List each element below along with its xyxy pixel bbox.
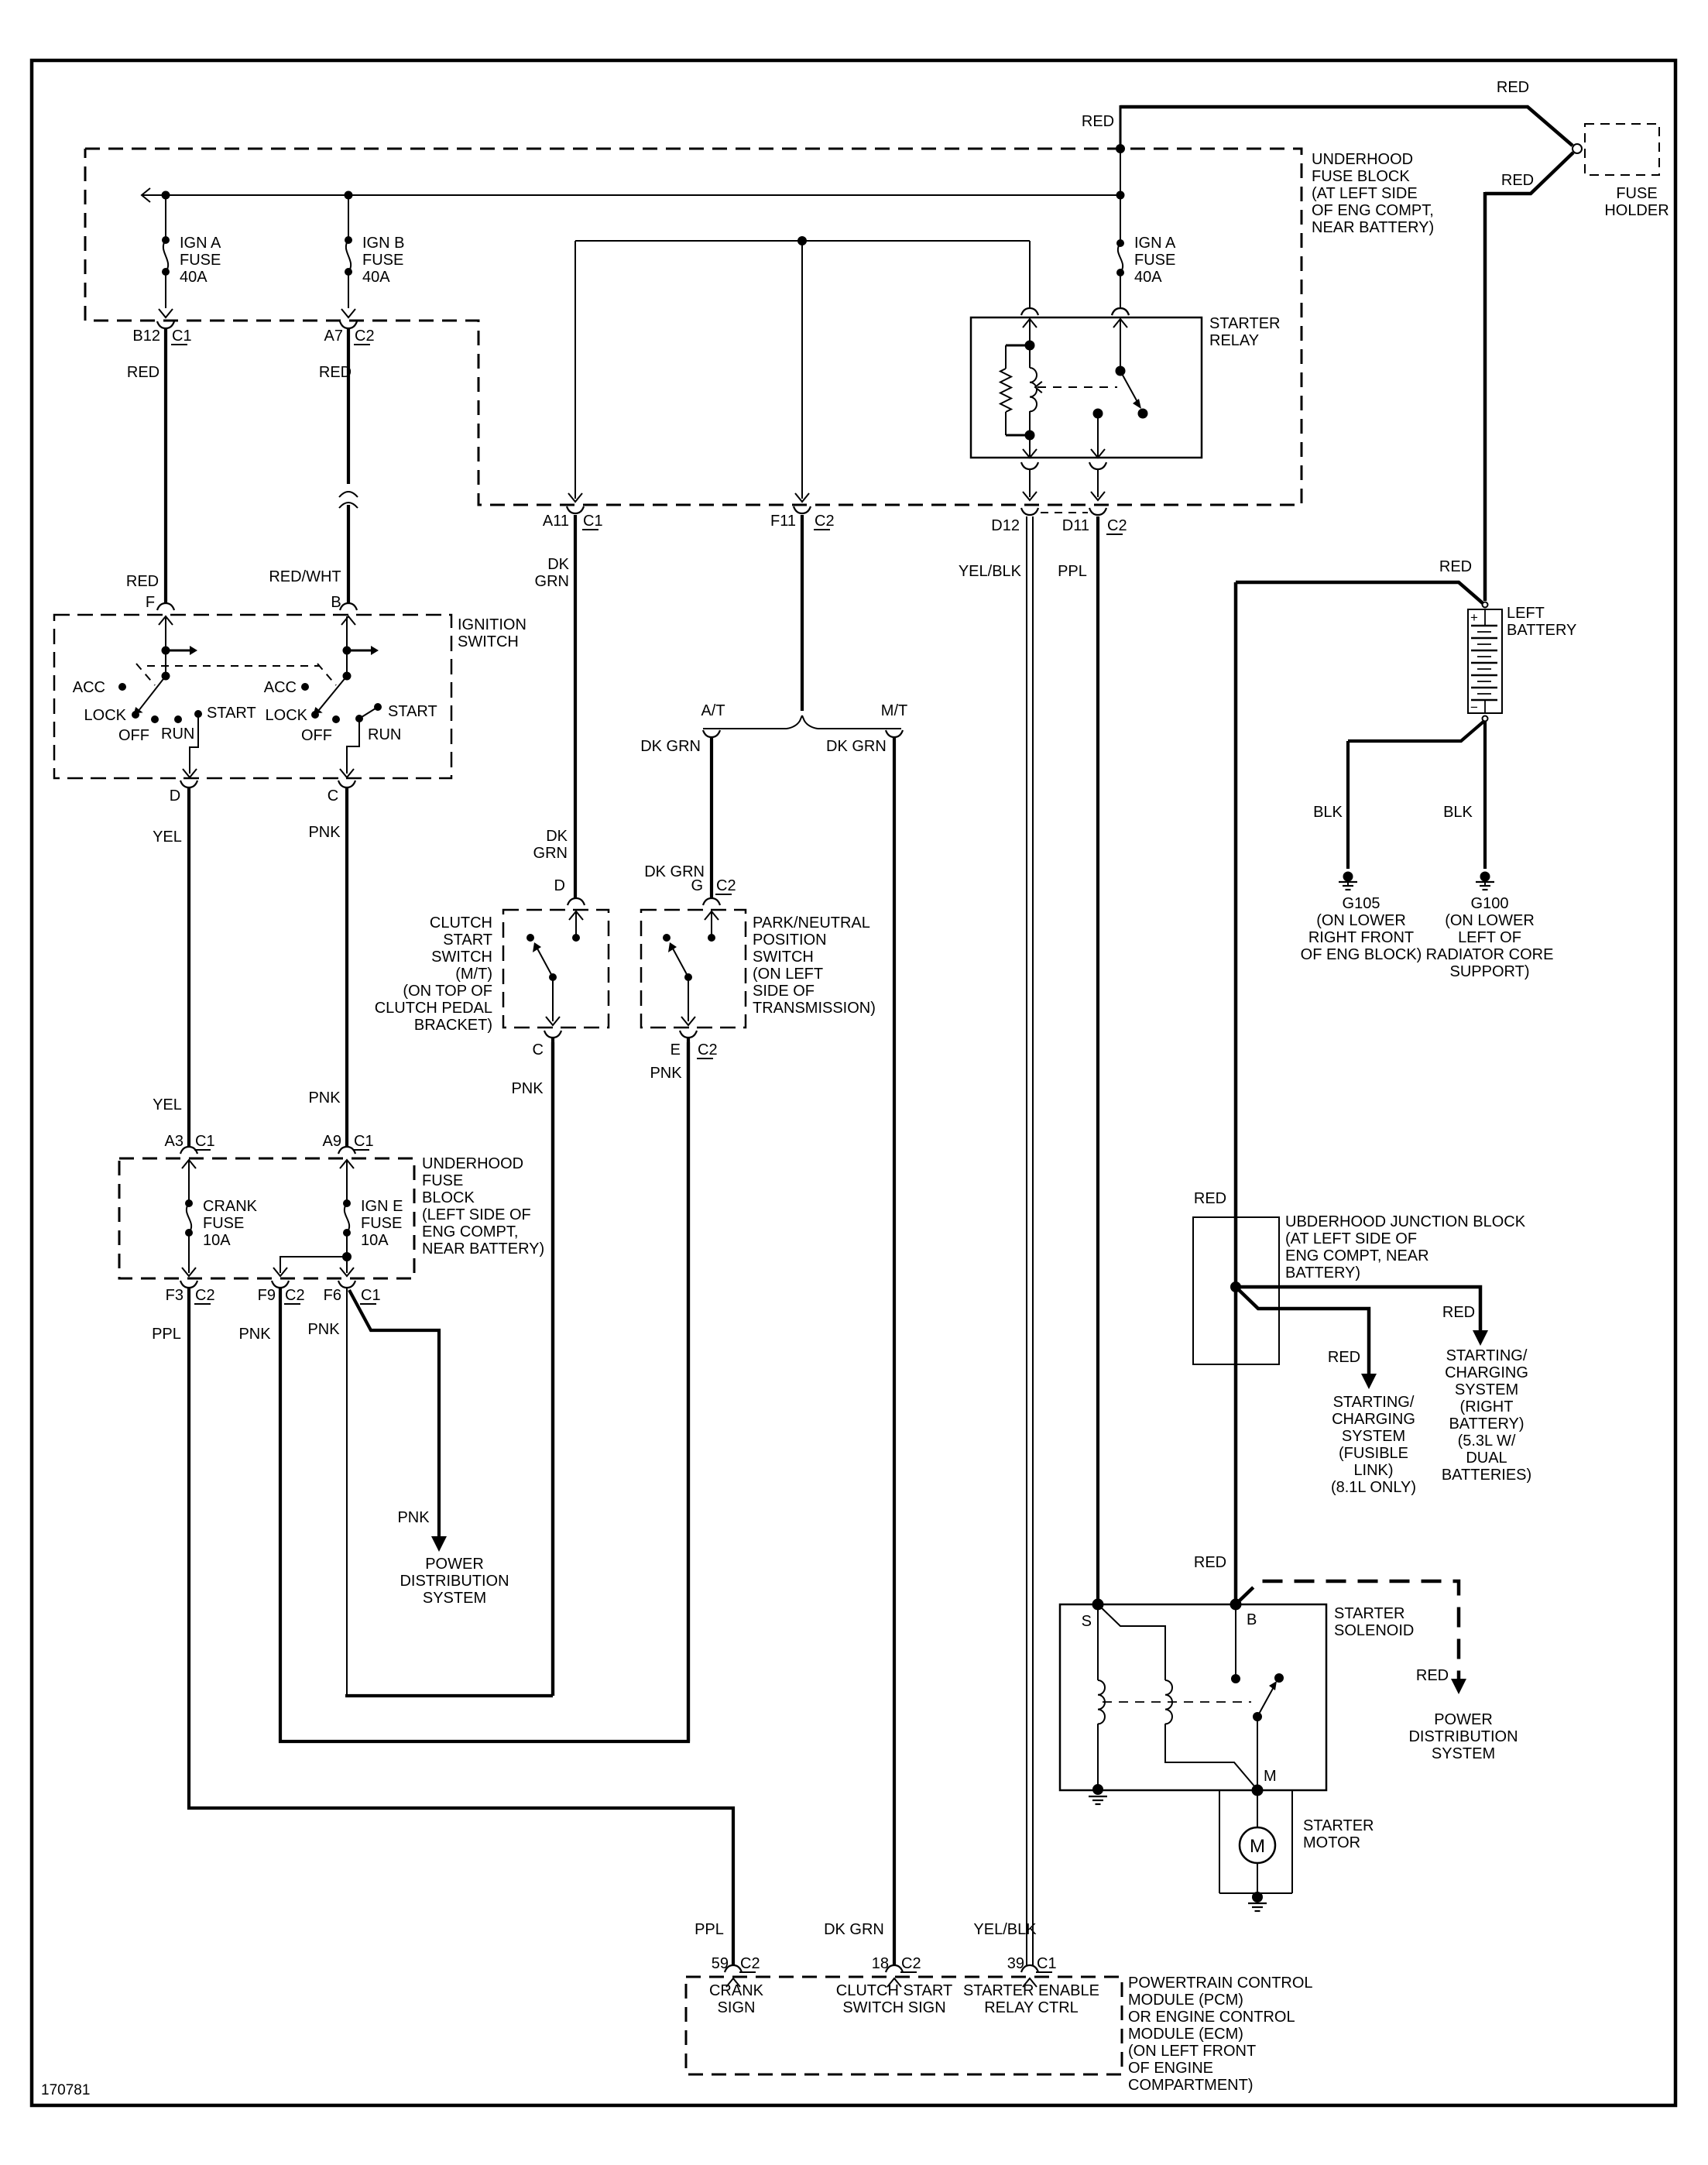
svg-text:SYSTEM: SYSTEM bbox=[1455, 1381, 1518, 1398]
svg-text:RUN: RUN bbox=[368, 726, 401, 743]
svg-text:F11: F11 bbox=[770, 513, 796, 530]
svg-text:START: START bbox=[207, 705, 256, 722]
svg-text:PPL: PPL bbox=[695, 1921, 724, 1938]
svg-text:STARTING/: STARTING/ bbox=[1446, 1347, 1528, 1364]
svg-text:OFF: OFF bbox=[118, 727, 149, 744]
svg-text:RADIATOR CORE: RADIATOR CORE bbox=[1426, 946, 1554, 963]
svg-text:BATTERY): BATTERY) bbox=[1449, 1415, 1524, 1432]
svg-text:M/T: M/T bbox=[881, 702, 907, 719]
svg-text:SOLENOID: SOLENOID bbox=[1334, 1622, 1414, 1639]
svg-text:PNK: PNK bbox=[397, 1509, 430, 1526]
svg-text:OR ENGINE CONTROL: OR ENGINE CONTROL bbox=[1128, 2009, 1295, 2026]
svg-text:FUSE: FUSE bbox=[422, 1172, 463, 1189]
svg-text:SWITCH SIGN: SWITCH SIGN bbox=[842, 1999, 945, 2016]
svg-text:SUPPORT): SUPPORT) bbox=[1450, 963, 1530, 980]
svg-text:POWERTRAIN CONTROL: POWERTRAIN CONTROL bbox=[1128, 1975, 1313, 1992]
svg-text:NEAR BATTERY): NEAR BATTERY) bbox=[422, 1240, 544, 1257]
svg-text:FUSE: FUSE bbox=[361, 1215, 402, 1232]
svg-text:MOTOR: MOTOR bbox=[1303, 1834, 1360, 1851]
svg-text:A7: A7 bbox=[324, 328, 343, 345]
svg-text:IGN A: IGN A bbox=[1134, 235, 1176, 252]
svg-text:POSITION: POSITION bbox=[753, 932, 827, 949]
svg-text:YEL: YEL bbox=[153, 1096, 182, 1113]
svg-text:STARTER: STARTER bbox=[1303, 1817, 1374, 1834]
svg-text:C1: C1 bbox=[172, 328, 192, 345]
svg-text:FUSE BLOCK: FUSE BLOCK bbox=[1312, 168, 1410, 185]
svg-text:(ON LEFT FRONT: (ON LEFT FRONT bbox=[1128, 2043, 1256, 2060]
svg-text:SYSTEM: SYSTEM bbox=[423, 1590, 486, 1607]
svg-text:RED: RED bbox=[127, 364, 159, 381]
svg-text:FUSE: FUSE bbox=[1134, 252, 1175, 269]
svg-text:B: B bbox=[331, 594, 341, 611]
svg-text:START: START bbox=[443, 932, 492, 949]
svg-text:M: M bbox=[1250, 1836, 1265, 1857]
svg-text:C2: C2 bbox=[815, 513, 835, 530]
svg-text:BATTERY): BATTERY) bbox=[1285, 1264, 1360, 1282]
svg-text:18: 18 bbox=[872, 1955, 889, 1972]
svg-text:YEL/BLK: YEL/BLK bbox=[959, 563, 1022, 580]
svg-text:B12: B12 bbox=[132, 328, 160, 345]
svg-text:RED: RED bbox=[1442, 1304, 1475, 1321]
svg-text:F6: F6 bbox=[324, 1287, 341, 1304]
svg-text:HOLDER: HOLDER bbox=[1604, 202, 1669, 219]
svg-text:(AT LEFT SIDE: (AT LEFT SIDE bbox=[1312, 185, 1418, 202]
svg-text:59: 59 bbox=[712, 1955, 729, 1972]
svg-text:UNDERHOOD: UNDERHOOD bbox=[1312, 151, 1413, 168]
svg-text:RED: RED bbox=[1328, 1349, 1360, 1366]
svg-text:PPL: PPL bbox=[1058, 563, 1087, 580]
svg-text:RED: RED bbox=[1416, 1667, 1449, 1684]
svg-text:RED: RED bbox=[1194, 1554, 1226, 1571]
svg-text:C2: C2 bbox=[901, 1955, 921, 1972]
svg-text:40A: 40A bbox=[1134, 269, 1162, 286]
svg-text:C1: C1 bbox=[583, 513, 603, 530]
svg-text:DK: DK bbox=[547, 556, 569, 573]
svg-text:(LEFT SIDE OF: (LEFT SIDE OF bbox=[422, 1206, 531, 1223]
svg-text:STARTER: STARTER bbox=[1334, 1605, 1405, 1622]
svg-text:RELAY: RELAY bbox=[1209, 332, 1259, 349]
svg-text:C1: C1 bbox=[354, 1133, 374, 1150]
svg-text:(ON LOWER: (ON LOWER bbox=[1316, 912, 1406, 929]
svg-text:IGN E: IGN E bbox=[361, 1198, 403, 1215]
svg-text:POWER: POWER bbox=[425, 1556, 484, 1573]
svg-text:SWITCH: SWITCH bbox=[431, 949, 492, 966]
svg-text:(M/T): (M/T) bbox=[455, 966, 492, 983]
svg-text:ENG COMPT,: ENG COMPT, bbox=[422, 1223, 518, 1240]
svg-text:A11: A11 bbox=[543, 513, 569, 530]
svg-text:C2: C2 bbox=[195, 1287, 215, 1304]
svg-text:OFF: OFF bbox=[301, 727, 332, 744]
svg-text:IGNITION: IGNITION bbox=[458, 616, 526, 633]
svg-text:A/T: A/T bbox=[701, 702, 725, 719]
svg-text:SIGN: SIGN bbox=[718, 1999, 756, 2016]
svg-text:PNK: PNK bbox=[308, 1089, 341, 1107]
svg-text:CHARGING: CHARGING bbox=[1332, 1411, 1415, 1428]
svg-text:DK GRN: DK GRN bbox=[826, 738, 887, 755]
svg-text:BLOCK: BLOCK bbox=[422, 1189, 475, 1206]
svg-text:PNK: PNK bbox=[238, 1326, 271, 1343]
svg-text:RED/WHT: RED/WHT bbox=[269, 568, 341, 585]
svg-text:TRANSMISSION): TRANSMISSION) bbox=[753, 1000, 876, 1017]
svg-text:CLUTCH PEDAL: CLUTCH PEDAL bbox=[375, 1000, 492, 1017]
svg-text:UNDERHOOD: UNDERHOOD bbox=[422, 1155, 523, 1172]
svg-text:C2: C2 bbox=[285, 1287, 305, 1304]
svg-text:G: G bbox=[691, 877, 703, 894]
svg-text:(FUSIBLE: (FUSIBLE bbox=[1339, 1445, 1408, 1462]
svg-text:(ON LEFT: (ON LEFT bbox=[753, 966, 823, 983]
svg-text:RUN: RUN bbox=[161, 726, 194, 743]
svg-text:FUSE: FUSE bbox=[203, 1215, 244, 1232]
svg-text:SWITCH: SWITCH bbox=[458, 633, 519, 650]
svg-text:DK GRN: DK GRN bbox=[824, 1921, 884, 1938]
svg-text:NEAR BATTERY): NEAR BATTERY) bbox=[1312, 219, 1434, 236]
svg-text:RED: RED bbox=[1194, 1190, 1226, 1207]
svg-text:39: 39 bbox=[1007, 1955, 1024, 1972]
svg-text:CHARGING: CHARGING bbox=[1445, 1364, 1528, 1381]
svg-text:BLK: BLK bbox=[1313, 804, 1343, 821]
svg-text:COMPARTMENT): COMPARTMENT) bbox=[1128, 2077, 1253, 2094]
svg-text:−: − bbox=[1470, 700, 1478, 715]
svg-text:DISTRIBUTION: DISTRIBUTION bbox=[400, 1573, 509, 1590]
svg-text:STARTER: STARTER bbox=[1209, 315, 1281, 332]
svg-text:FUSE: FUSE bbox=[180, 252, 221, 269]
svg-text:DISTRIBUTION: DISTRIBUTION bbox=[1408, 1728, 1518, 1745]
svg-text:C2: C2 bbox=[740, 1955, 760, 1972]
svg-text:+: + bbox=[1470, 610, 1478, 625]
svg-text:CLUTCH: CLUTCH bbox=[430, 914, 492, 932]
svg-text:LOCK: LOCK bbox=[84, 707, 127, 724]
svg-text:BLK: BLK bbox=[1443, 804, 1473, 821]
svg-text:(8.1L ONLY): (8.1L ONLY) bbox=[1331, 1479, 1416, 1496]
svg-text:C1: C1 bbox=[195, 1133, 215, 1150]
svg-text:UBDERHOOD JUNCTION BLOCK: UBDERHOOD JUNCTION BLOCK bbox=[1285, 1213, 1526, 1230]
svg-text:C1: C1 bbox=[361, 1287, 381, 1304]
svg-text:LOCK: LOCK bbox=[266, 707, 308, 724]
svg-text:PNK: PNK bbox=[650, 1065, 682, 1082]
svg-text:170781: 170781 bbox=[41, 2082, 90, 2098]
svg-text:SWITCH: SWITCH bbox=[753, 949, 814, 966]
svg-text:LINK): LINK) bbox=[1353, 1462, 1393, 1479]
svg-text:(AT LEFT SIDE OF: (AT LEFT SIDE OF bbox=[1285, 1230, 1417, 1247]
svg-text:DUAL: DUAL bbox=[1466, 1450, 1507, 1467]
svg-text:CRANK: CRANK bbox=[709, 1982, 764, 1999]
svg-text:OF ENGINE: OF ENGINE bbox=[1128, 2060, 1213, 2077]
svg-text:YEL/BLK: YEL/BLK bbox=[973, 1921, 1037, 1938]
svg-text:(5.3L W/: (5.3L W/ bbox=[1458, 1432, 1516, 1450]
svg-text:RED: RED bbox=[1439, 558, 1472, 575]
svg-text:D11: D11 bbox=[1062, 517, 1089, 534]
svg-text:RIGHT FRONT: RIGHT FRONT bbox=[1308, 929, 1414, 946]
svg-text:DK GRN: DK GRN bbox=[640, 738, 701, 755]
svg-text:PNK: PNK bbox=[511, 1080, 544, 1097]
svg-text:RED: RED bbox=[1497, 79, 1529, 96]
svg-text:C2: C2 bbox=[355, 328, 375, 345]
svg-text:PARK/NEUTRAL: PARK/NEUTRAL bbox=[753, 914, 870, 932]
svg-text:D: D bbox=[554, 877, 565, 894]
svg-text:LEFT OF: LEFT OF bbox=[1458, 929, 1521, 946]
svg-text:ACC: ACC bbox=[73, 679, 105, 696]
svg-text:BATTERIES): BATTERIES) bbox=[1442, 1467, 1531, 1484]
svg-text:G100: G100 bbox=[1471, 895, 1509, 912]
svg-text:FUSE: FUSE bbox=[1616, 185, 1657, 202]
svg-text:D12: D12 bbox=[991, 517, 1020, 534]
svg-text:(ON TOP OF: (ON TOP OF bbox=[403, 983, 492, 1000]
svg-text:C2: C2 bbox=[698, 1041, 718, 1058]
svg-text:A9: A9 bbox=[323, 1133, 341, 1150]
svg-text:PNK: PNK bbox=[307, 1321, 340, 1338]
svg-text:START: START bbox=[388, 703, 437, 720]
svg-text:B: B bbox=[1247, 1611, 1257, 1628]
svg-text:BRACKET): BRACKET) bbox=[414, 1017, 492, 1034]
svg-text:40A: 40A bbox=[180, 269, 207, 286]
svg-text:PPL: PPL bbox=[152, 1326, 181, 1343]
svg-text:ACC: ACC bbox=[264, 679, 297, 696]
svg-text:BATTERY: BATTERY bbox=[1507, 622, 1576, 639]
svg-text:E: E bbox=[671, 1041, 681, 1058]
svg-text:(ON LOWER: (ON LOWER bbox=[1445, 912, 1535, 929]
svg-text:CRANK: CRANK bbox=[203, 1198, 258, 1215]
svg-text:C: C bbox=[328, 787, 338, 805]
svg-text:F9: F9 bbox=[258, 1287, 276, 1304]
svg-text:C: C bbox=[533, 1041, 544, 1058]
svg-text:PNK: PNK bbox=[308, 824, 341, 841]
svg-text:RED: RED bbox=[126, 573, 159, 590]
svg-text:RED: RED bbox=[1501, 172, 1534, 189]
svg-text:10A: 10A bbox=[361, 1232, 389, 1249]
svg-text:YEL: YEL bbox=[153, 829, 182, 846]
svg-text:G105: G105 bbox=[1343, 895, 1380, 912]
svg-text:C1: C1 bbox=[1037, 1955, 1057, 1972]
svg-text:FUSE: FUSE bbox=[362, 252, 403, 269]
svg-text:RED: RED bbox=[1082, 113, 1114, 130]
svg-text:F3: F3 bbox=[166, 1287, 183, 1304]
svg-text:GRN: GRN bbox=[533, 845, 568, 862]
svg-text:SYSTEM: SYSTEM bbox=[1432, 1745, 1495, 1762]
svg-text:C2: C2 bbox=[716, 877, 736, 894]
svg-text:LEFT: LEFT bbox=[1507, 605, 1545, 622]
svg-text:OF ENG COMPT,: OF ENG COMPT, bbox=[1312, 202, 1434, 219]
svg-text:STARTER ENABLE: STARTER ENABLE bbox=[963, 1982, 1099, 1999]
svg-text:GRN: GRN bbox=[535, 573, 569, 590]
svg-text:STARTING/: STARTING/ bbox=[1333, 1394, 1415, 1411]
svg-text:ENG COMPT, NEAR: ENG COMPT, NEAR bbox=[1285, 1247, 1429, 1264]
svg-text:RELAY CTRL: RELAY CTRL bbox=[984, 1999, 1079, 2016]
svg-text:DK: DK bbox=[546, 828, 568, 845]
svg-text:SIDE OF: SIDE OF bbox=[753, 983, 815, 1000]
svg-text:CLUTCH START: CLUTCH START bbox=[836, 1982, 952, 1999]
svg-text:MODULE (PCM): MODULE (PCM) bbox=[1128, 1992, 1243, 2009]
svg-text:OF ENG BLOCK): OF ENG BLOCK) bbox=[1301, 946, 1422, 963]
svg-text:S: S bbox=[1082, 1613, 1092, 1630]
svg-text:IGN B: IGN B bbox=[362, 235, 404, 252]
svg-text:10A: 10A bbox=[203, 1232, 231, 1249]
svg-text:F: F bbox=[146, 594, 155, 611]
svg-text:40A: 40A bbox=[362, 269, 390, 286]
svg-text:C2: C2 bbox=[1107, 517, 1127, 534]
svg-text:M: M bbox=[1264, 1768, 1277, 1785]
svg-text:MODULE (ECM): MODULE (ECM) bbox=[1128, 2026, 1243, 2043]
svg-text:A3: A3 bbox=[165, 1133, 183, 1150]
svg-text:IGN A: IGN A bbox=[180, 235, 221, 252]
svg-text:POWER: POWER bbox=[1434, 1711, 1493, 1728]
svg-text:RED: RED bbox=[319, 364, 352, 381]
svg-text:(RIGHT: (RIGHT bbox=[1460, 1398, 1514, 1415]
svg-text:D: D bbox=[170, 787, 180, 805]
svg-text:SYSTEM: SYSTEM bbox=[1342, 1428, 1405, 1445]
